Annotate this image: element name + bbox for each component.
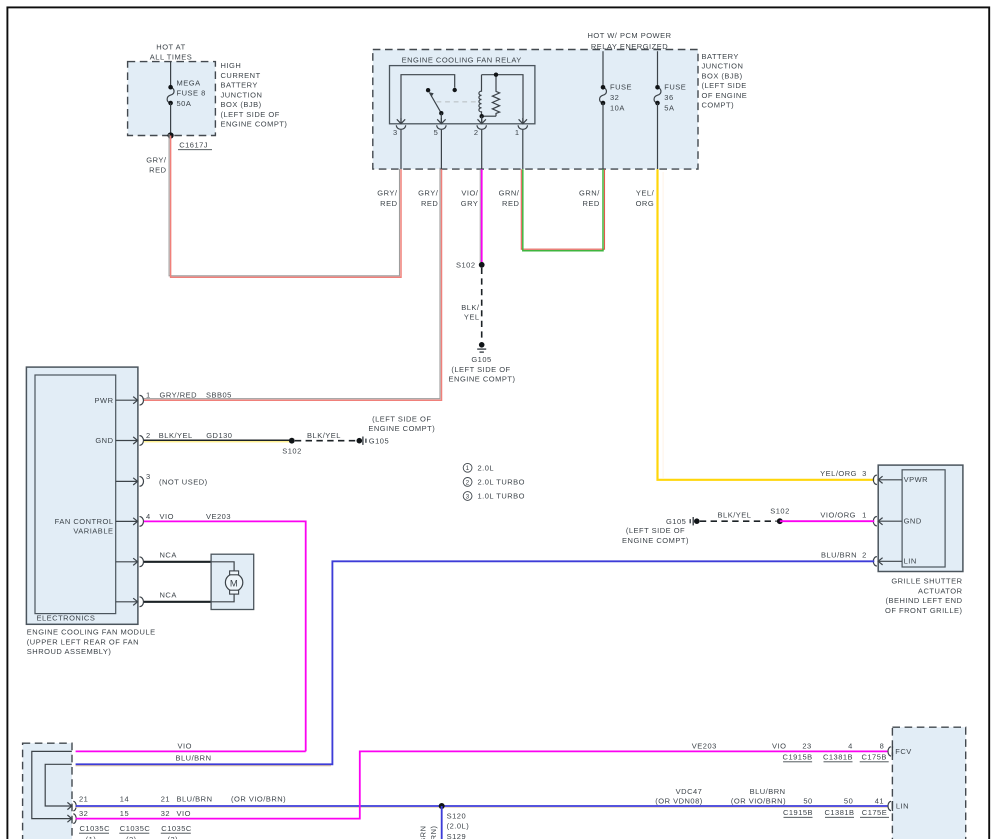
- svg-text:21: 21: [79, 795, 88, 804]
- wire VIO module pin4 into connector: [76, 741, 306, 751]
- svg-text:1.0L TURBO: 1.0L TURBO: [478, 492, 526, 501]
- wire fuse8 feed: [170, 62, 172, 88]
- svg-text:(2): (2): [126, 835, 137, 839]
- svg-text:ACTUATOR: ACTUATOR: [918, 586, 963, 595]
- svg-text:VPWR: VPWR: [904, 475, 929, 484]
- svg-text:15: 15: [120, 809, 129, 818]
- svg-text:ALL TIMES: ALL TIMES: [150, 52, 192, 61]
- svg-text:FUSE 8: FUSE 8: [177, 89, 206, 98]
- label VIO/GRY pin2: [461, 188, 479, 208]
- svg-text:(LEFT SIDE OF: (LEFT SIDE OF: [221, 110, 280, 119]
- svg-text:NCA: NCA: [160, 550, 177, 559]
- label GND: [95, 436, 113, 445]
- wire relay coil bottom to pin2: [480, 114, 497, 123]
- wire fuse32 feed: [602, 51, 604, 87]
- battery junction box BJB high current (dashed box): [128, 62, 216, 136]
- svg-text:GRY/: GRY/: [146, 155, 167, 164]
- svg-text:4: 4: [848, 741, 853, 750]
- wire BLK/YEL dashed S102 to G105: [461, 268, 481, 342]
- svg-text:GND: GND: [95, 436, 113, 445]
- svg-text:BLU/BRN: BLU/BRN: [821, 551, 857, 560]
- svg-text:32: 32: [161, 809, 170, 818]
- svg-text:(BEHIND LEFT END: (BEHIND LEFT END: [885, 596, 962, 605]
- svg-text:BLK/YEL: BLK/YEL: [718, 511, 752, 520]
- svg-text:ORG: ORG: [636, 199, 655, 208]
- label ELECTRONICS: [37, 613, 96, 622]
- svg-text:S102: S102: [456, 261, 476, 270]
- svg-text:VDC47: VDC47: [676, 787, 703, 796]
- svg-text:2.0L TURBO: 2.0L TURBO: [478, 478, 526, 487]
- label GRY/RED: [146, 155, 167, 174]
- pin 32 connector: [67, 814, 76, 824]
- svg-text:32: 32: [79, 809, 88, 818]
- wire BLK/YEL module pin2 (GD130): [144, 431, 292, 442]
- svg-text:VARIABLE: VARIABLE: [73, 527, 113, 536]
- svg-text:BATTERY: BATTERY: [221, 81, 258, 90]
- wire internal BLU path: [45, 764, 72, 806]
- label FAN CONTROL VARIABLE: [55, 517, 114, 536]
- svg-text:2: 2: [146, 431, 151, 440]
- wire fuse36 to box edge: [657, 103, 659, 169]
- label BATTERY JUNCTION BOX: [702, 52, 748, 110]
- wire GRY/RED C1617J to relay pin 3: [169, 134, 401, 277]
- svg-text:BLK/YEL: BLK/YEL: [307, 431, 341, 440]
- wire VIO module pin4 (VE203): [144, 512, 306, 752]
- fuse MEGA FUSE 8 50A: [167, 78, 206, 108]
- svg-text:RED: RED: [582, 199, 599, 208]
- svg-text:ENGINE COMPT): ENGINE COMPT): [368, 424, 435, 433]
- svg-text:1: 1: [862, 510, 867, 519]
- wire GRN/RED relay pin1 to fuse32: [521, 169, 604, 251]
- actuation dashed link: [437, 101, 478, 103]
- label GRY/RED pin5: [418, 188, 439, 208]
- label OR VIO/BRN rotated: [429, 826, 438, 839]
- svg-text:HOT AT: HOT AT: [156, 43, 185, 52]
- svg-text:M: M: [230, 578, 238, 589]
- svg-text:1: 1: [466, 465, 470, 472]
- label GRILLE SHUTTER ACTUATOR caption: [885, 577, 963, 615]
- svg-text:5A: 5A: [664, 104, 674, 113]
- svg-text:ENGINE COOLING FAN RELAY: ENGINE COOLING FAN RELAY: [402, 56, 522, 65]
- op: relay ENGINE COOLING FAN RELAY box: [390, 56, 535, 124]
- svg-text:(1): (1): [86, 835, 97, 839]
- label NCA pin5: [160, 550, 177, 559]
- svg-text:3: 3: [466, 493, 470, 500]
- svg-text:SHROUD ASSEMBLY): SHROUD ASSEMBLY): [27, 647, 112, 656]
- svg-text:2: 2: [466, 479, 470, 486]
- wire YEL/ORG fuse36 to grille VPWR: [658, 169, 875, 480]
- svg-text:RED: RED: [380, 199, 397, 208]
- pin 21 connector: [67, 801, 76, 811]
- svg-text:VIO: VIO: [178, 741, 192, 750]
- svg-text:32: 32: [610, 93, 619, 102]
- actuator GRILLE SHUTTER ACTUATOR box: [878, 465, 963, 571]
- wire relay pin3 to fixed contact: [401, 75, 457, 123]
- svg-text:(LEFT SIDE OF: (LEFT SIDE OF: [626, 526, 685, 535]
- svg-text:BLK/YEL: BLK/YEL: [159, 431, 193, 440]
- wire VIO pin32 run to FCV: [76, 751, 889, 818]
- node S120 splice: [439, 803, 469, 839]
- node S102 splice: [456, 261, 485, 270]
- label ENGINE COOLING FAN MODULE caption: [27, 628, 156, 656]
- svg-text:MEGA: MEGA: [177, 78, 201, 87]
- fuse F36 5A: [654, 83, 686, 113]
- label GRN/RED fuse32: [579, 188, 600, 208]
- svg-text:ENGINE COMPT): ENGINE COMPT): [449, 375, 516, 384]
- svg-text:VIO/: VIO/: [461, 188, 478, 197]
- svg-text:ENGINE COMPT): ENGINE COMPT): [221, 120, 288, 129]
- svg-text:3: 3: [862, 469, 867, 478]
- connector labels C1915B C1381B C175B: [783, 753, 889, 762]
- svg-text:YEL/: YEL/: [636, 188, 655, 197]
- svg-text:BLU/BRN: BLU/BRN: [177, 795, 213, 804]
- pin 3 relay: [393, 118, 406, 169]
- node S102 splice GND: [282, 438, 302, 456]
- fuse F32 10A: [600, 83, 632, 113]
- svg-text:C1915B: C1915B: [783, 808, 813, 817]
- svg-text:GRY/: GRY/: [418, 188, 439, 197]
- svg-text:GRY: GRY: [461, 199, 479, 208]
- wire VIO/GRY relay pin2 to S102: [480, 169, 482, 262]
- svg-text:C1035C: C1035C: [161, 824, 192, 833]
- pin LIN: [888, 801, 909, 811]
- wire GRY/RED relay pin5 to module PWR: [142, 168, 441, 401]
- svg-text:BLU/BRN: BLU/BRN: [176, 753, 212, 762]
- svg-text:RED: RED: [149, 165, 166, 174]
- svg-text:(3): (3): [167, 835, 178, 839]
- svg-text:YEL/ORG: YEL/ORG: [820, 469, 857, 478]
- label BLU/BRN: [821, 551, 857, 560]
- svg-text:ENGINE COMPT): ENGINE COMPT): [622, 536, 689, 545]
- svg-text:GD130: GD130: [206, 431, 232, 440]
- wire fuse32 to box edge: [602, 103, 604, 169]
- label VE203 run: [692, 741, 885, 750]
- svg-text:C175B: C175B: [861, 753, 886, 762]
- svg-text:C1915B: C1915B: [783, 753, 813, 762]
- svg-text:1: 1: [146, 391, 151, 400]
- wire relay pin5: [440, 113, 442, 123]
- svg-text:BLK/: BLK/: [461, 303, 480, 312]
- wire BLU/BRN pin21 run to FCV LIN: [76, 806, 889, 808]
- pin 1 module: [116, 391, 151, 405]
- label YEL/ORG: [820, 469, 857, 478]
- ground G105: [449, 342, 516, 384]
- battery junction box BJB (dashed box): [373, 50, 698, 170]
- wire BLK/YEL dashed to G105: [295, 431, 356, 441]
- ground G105 left: [357, 414, 436, 445]
- svg-text:VIO/ORG: VIO/ORG: [820, 511, 856, 520]
- node HOT W/ PCM POWER RELAY ENERGIZED: [587, 31, 671, 51]
- pin 2 relay: [474, 118, 487, 169]
- svg-text:S120: S120: [447, 812, 467, 821]
- svg-text:(NOT USED): (NOT USED): [159, 477, 208, 486]
- pin 1 relay: [515, 118, 528, 169]
- svg-text:(OR VDN08): (OR VDN08): [655, 797, 703, 806]
- svg-text:21: 21: [161, 795, 170, 804]
- svg-text:2: 2: [862, 550, 867, 559]
- svg-text:C175E: C175E: [862, 808, 887, 817]
- svg-text:S129: S129: [447, 832, 467, 839]
- label GRN/RED pin1: [499, 188, 520, 208]
- svg-text:RED: RED: [421, 199, 438, 208]
- svg-text:OF ENGINE: OF ENGINE: [702, 91, 748, 100]
- svg-text:1: 1: [515, 128, 520, 137]
- svg-text:VE203: VE203: [692, 741, 717, 750]
- svg-text:VIO: VIO: [177, 809, 191, 818]
- label VIO/ORG: [820, 511, 856, 520]
- connector box C1035C (dashed): [23, 743, 72, 839]
- pin NCA module: [116, 557, 144, 567]
- svg-text:C1617J: C1617J: [179, 140, 208, 149]
- svg-text:4: 4: [146, 512, 151, 521]
- svg-text:G105: G105: [666, 517, 686, 526]
- pin 3 module: [116, 472, 151, 486]
- svg-text:(OR VIO/BRN): (OR VIO/BRN): [231, 795, 286, 804]
- svg-text:(UPPER LEFT REAR OF FAN: (UPPER LEFT REAR OF FAN: [27, 637, 139, 646]
- svg-text:VE203: VE203: [206, 512, 231, 521]
- svg-text:BOX (BJB): BOX (BJB): [221, 100, 262, 109]
- svg-text:GRY/RED: GRY/RED: [160, 391, 198, 400]
- svg-text:G105: G105: [369, 436, 389, 445]
- svg-text:RED: RED: [502, 199, 519, 208]
- svg-text:FUSE: FUSE: [664, 83, 686, 92]
- svg-text:LIN: LIN: [904, 557, 917, 566]
- wire NCA to motor bottom: [144, 601, 211, 603]
- svg-text:YEL: YEL: [464, 313, 480, 322]
- module ENGINE COOLING FAN MODULE box: [26, 367, 137, 624]
- svg-text:(2.0L): (2.0L): [447, 822, 470, 831]
- svg-text:HOT W/ PCM POWER: HOT W/ PCM POWER: [587, 31, 671, 40]
- label pin row 32: [79, 809, 191, 818]
- pin 2 module: [116, 431, 151, 445]
- svg-text:RELAY ENERGIZED: RELAY ENERGIZED: [591, 42, 668, 51]
- svg-text:C1381B: C1381B: [823, 753, 853, 762]
- label PWR: [95, 396, 114, 405]
- svg-text:HIGH: HIGH: [221, 61, 242, 70]
- label HIGH CURRENT BATTERY JUNCTION BOX: [221, 61, 288, 129]
- svg-text:50A: 50A: [177, 99, 192, 108]
- node HOT AT ALL TIMES: [150, 43, 192, 62]
- svg-text:COMPT): COMPT): [702, 101, 735, 110]
- pin 4 module: [116, 512, 151, 526]
- node S102 splice right: [770, 506, 790, 524]
- svg-text:8: 8: [880, 741, 885, 750]
- wire GRY/RED module pin1 (SBB05): [160, 391, 232, 400]
- svg-text:VIO: VIO: [160, 512, 174, 521]
- svg-text:GRY/: GRY/: [377, 188, 398, 197]
- svg-text:(OR VIO/BRN): (OR VIO/BRN): [731, 797, 786, 806]
- wire NCA to motor top: [144, 561, 211, 563]
- svg-text:JUNCTION: JUNCTION: [702, 62, 744, 71]
- wire BLU drop below S120: [441, 806, 443, 839]
- svg-text:(LEFT SIDE: (LEFT SIDE: [702, 81, 747, 90]
- svg-text:(LEFT SIDE OF: (LEFT SIDE OF: [372, 414, 431, 423]
- svg-text:3: 3: [393, 128, 398, 137]
- ground G105 right: [622, 517, 700, 545]
- svg-text:BLU/BRN: BLU/BRN: [419, 826, 428, 839]
- label GRY/RED pin3: [377, 188, 398, 208]
- svg-text:36: 36: [664, 93, 673, 102]
- coil relay winding: [479, 75, 482, 117]
- svg-text:10A: 10A: [610, 104, 625, 113]
- wire relay coil rail: [482, 73, 524, 124]
- svg-text:ENGINE COOLING FAN MODULE: ENGINE COOLING FAN MODULE: [27, 628, 156, 637]
- label BLU/BRN: [176, 753, 212, 762]
- label NOT USED pin3: [159, 477, 208, 486]
- svg-text:41: 41: [875, 797, 884, 806]
- pin 2 actuator LIN: [862, 550, 917, 566]
- svg-text:50: 50: [803, 797, 812, 806]
- svg-text:BLU/BRN: BLU/BRN: [750, 787, 786, 796]
- svg-text:GRN/: GRN/: [499, 188, 520, 197]
- label YEL/ORG fuse36: [636, 188, 655, 208]
- svg-text:GRILLE SHUTTER: GRILLE SHUTTER: [891, 577, 962, 586]
- wire fuse8 to C1617J: [170, 103, 172, 136]
- svg-text:CURRENT: CURRENT: [221, 71, 261, 80]
- svg-text:S102: S102: [282, 447, 302, 456]
- svg-text:GND: GND: [904, 517, 922, 526]
- svg-text:PWR: PWR: [95, 396, 114, 405]
- pin 5 relay: [434, 118, 446, 169]
- wire BLK/YEL dashed G105 to S102: [700, 511, 777, 522]
- svg-text:BATTERY: BATTERY: [702, 52, 739, 61]
- svg-text:2.0L: 2.0L: [478, 463, 495, 472]
- svg-text:(LEFT SIDE OF: (LEFT SIDE OF: [451, 365, 510, 374]
- svg-text:C1035C: C1035C: [80, 824, 111, 833]
- wire fuse36 feed: [657, 51, 659, 87]
- svg-text:S102: S102: [770, 506, 790, 515]
- svg-text:3: 3: [146, 472, 151, 481]
- svg-text:23: 23: [802, 741, 811, 750]
- svg-text:5: 5: [434, 128, 439, 137]
- svg-text:BOX (BJB): BOX (BJB): [702, 71, 743, 80]
- pin 3 actuator VPWR: [862, 469, 928, 485]
- junction C1617J dot: [168, 132, 174, 138]
- connector C1617J: [178, 140, 212, 149]
- switch arm relay: [426, 88, 444, 115]
- svg-text:JUNCTION: JUNCTION: [221, 90, 263, 99]
- svg-text:14: 14: [120, 795, 129, 804]
- resistor relay suppression: [492, 75, 499, 117]
- connector labels C1915B C1381B C175E: [783, 808, 889, 817]
- svg-text:FUSE: FUSE: [610, 83, 632, 92]
- pin FCV: [888, 746, 912, 756]
- pin 1 actuator GND: [862, 510, 922, 526]
- svg-text:GRN/: GRN/: [579, 188, 600, 197]
- label NCA pin6: [160, 590, 177, 599]
- svg-text:SBB05: SBB05: [206, 391, 232, 400]
- svg-text:G105: G105: [471, 355, 491, 364]
- svg-text:C1035C: C1035C: [120, 824, 151, 833]
- svg-text:ELECTRONICS: ELECTRONICS: [37, 613, 96, 622]
- svg-text:VIO: VIO: [772, 741, 786, 750]
- svg-text:50: 50: [844, 797, 853, 806]
- connector C1035C labels: [79, 824, 192, 839]
- svg-text:OF FRONT GRILLE): OF FRONT GRILLE): [885, 606, 962, 615]
- pin NCA module: [116, 597, 144, 607]
- legend engine variants: [463, 463, 525, 500]
- label BLU/BRN rotated: [419, 826, 428, 839]
- module FCV (dashed box): [892, 727, 965, 839]
- label pin row 21: [79, 795, 286, 804]
- svg-text:NCA: NCA: [160, 590, 177, 599]
- wire VIO/ORG S102 to actuator GND: [780, 520, 875, 522]
- wire internal VIO path: [32, 751, 72, 818]
- wire BLU/BRN actuator LIN: [76, 561, 875, 766]
- svg-text:(OR VIO/BRN): (OR VIO/BRN): [429, 826, 438, 839]
- motor M fan: [211, 554, 254, 609]
- label VDC47 run: [655, 787, 884, 806]
- svg-text:C1381B: C1381B: [824, 808, 854, 817]
- svg-text:FCV: FCV: [895, 747, 912, 756]
- svg-text:FAN CONTROL: FAN CONTROL: [55, 517, 114, 526]
- svg-text:2: 2: [474, 128, 479, 137]
- svg-text:LIN: LIN: [896, 802, 909, 811]
